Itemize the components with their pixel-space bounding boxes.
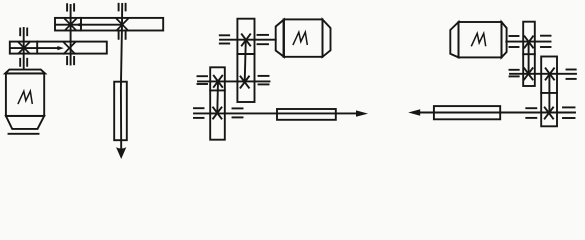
gear X output in boxB [545, 107, 553, 118]
gearbox boxB [541, 57, 557, 127]
divider between gears in boxB [541, 92, 557, 94]
bearing right of boxB on shaft II [567, 70, 576, 79]
bearing on shaft III above top rect [119, 4, 126, 11]
bearing left end of output shaft [194, 108, 204, 118]
gear pair rect, upper stage [55, 18, 163, 31]
gear on shaft III (X) [117, 19, 128, 30]
wire: output shaft with left arrow [420, 112, 576, 114]
wire: shaft I horizontal (motor shaft) [220, 39, 276, 41]
motor M1 label M [18, 91, 32, 103]
motor M1 bottom cap [6, 116, 44, 129]
wire: vertical link in boxB [548, 74, 550, 113]
bearing on shaft I above gear rect [20, 29, 27, 36]
gear X on shaft I in box1 [242, 34, 250, 45]
bearing left of boxA on motor shaft [510, 36, 519, 47]
arrow: motion in lower stage (points right) [11, 47, 58, 49]
wire: vertical link in box2 [216, 81, 219, 113]
gearbox box2 [210, 67, 225, 139]
bearing right of box2 on output shaft [233, 108, 243, 117]
motor M2 body [284, 19, 323, 56]
bearing left of boxB on output shaft [526, 108, 536, 118]
divider between gears in box2 [210, 89, 225, 91]
bearing right of box1 on shaft I [258, 35, 269, 44]
bearing left of boxA on shaft II [510, 70, 519, 77]
motor M3 left cap [450, 22, 458, 57]
wire: shaft II horizontal [510, 73, 576, 75]
output element rect on output shaft [434, 106, 500, 119]
wire: shaft I (motor shaft, vertical) [23, 28, 25, 69]
motor M2 label M [293, 32, 307, 44]
gear on shaft II lower (X) [64, 43, 75, 54]
bearing right of box1 on shaft II [259, 76, 269, 85]
bearing right of boxB on output shaft [563, 107, 575, 118]
gearbox box1 [237, 19, 254, 102]
bearing on shaft I below gear rect [20, 59, 27, 66]
gear X lower in box1 [241, 77, 249, 88]
motor M2 left cap [276, 20, 284, 57]
divider between gears of lower stage [36, 42, 38, 54]
bearing left of box1 on shaft I [220, 35, 229, 43]
output arrow down [116, 147, 126, 159]
motor M1 body [6, 73, 44, 116]
motor M3 right cap [502, 22, 507, 57]
divider between gears of upper stage [80, 18, 82, 31]
bearing on shaft II below lower rect [67, 57, 74, 64]
gear X lower in boxA [524, 68, 532, 79]
motor M1 top cap [5, 70, 45, 74]
bearing on shaft III below top rect [119, 32, 126, 39]
motor M3 body [459, 22, 502, 57]
bearing on shaft II above top rect [67, 4, 74, 10]
gear on shaft I (X) [19, 42, 30, 53]
gear X upper in box2 [214, 76, 222, 87]
divider between gears in boxA [523, 53, 535, 55]
gear X lower in box2 (output gear) [213, 107, 221, 118]
bearing right of boxA on motor shaft [541, 36, 551, 47]
wire: shaft II (vertical) [70, 5, 72, 65]
gear pair rect, lower stage [10, 42, 107, 54]
motor M3 label M [472, 33, 486, 45]
wire: output shaft with right arrow [194, 112, 357, 114]
gearbox boxA [523, 22, 535, 86]
output element rect (coupling) [277, 109, 336, 120]
wire: shaft II horizontal [198, 80, 270, 82]
wire: shaft III (vertical, output) [121, 4, 122, 148]
motor M2 right cap [323, 20, 331, 57]
arrow: motion in upper stage (points left) [56, 24, 122, 26]
bearing left of box2 on shaft II [198, 76, 208, 84]
wire: motor shaft horizontal [506, 41, 550, 43]
gear on shaft II upper (X) [65, 19, 76, 30]
wire: vertical link in box1 [245, 40, 246, 82]
gear X on motor shaft in boxA [525, 36, 533, 47]
gear X upper in boxB [546, 68, 554, 79]
divider between gears in box1 [237, 53, 254, 55]
wire: vertical link in boxA [528, 42, 530, 74]
output drum rect on shaft III [114, 82, 127, 141]
motor M1 base line [9, 133, 39, 135]
